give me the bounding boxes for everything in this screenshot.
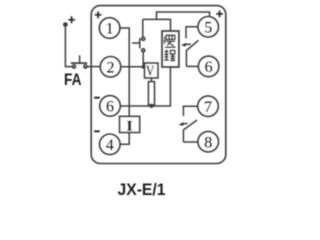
wire terminal1 to I element [120, 28, 129, 116]
terminal 5 [198, 17, 219, 38]
minus terminal 4 [94, 130, 100, 132]
plus FA [68, 16, 75, 23]
wire resistor to node [150, 104, 152, 107]
wire FA to terminal 2 [87, 66, 100, 68]
logic block character ji [164, 50, 175, 61]
junction dot resistor node [149, 104, 153, 108]
contact 5-6 arrow [184, 43, 191, 46]
svg-text:6: 6 [106, 99, 114, 116]
pushbutton FA plunger [71, 62, 87, 64]
junction dot button-V node [142, 65, 146, 69]
plus terminal 5 [216, 11, 223, 18]
terminal 2 [100, 57, 121, 78]
wire A to terminal 5 [157, 12, 210, 19]
wire button to V element [142, 52, 144, 67]
logic block box [162, 31, 179, 67]
contact 7-8 fixed stub [183, 106, 197, 116]
terminal 6 left [100, 96, 121, 117]
FA source dot [63, 22, 68, 27]
wire I to terminal 4 [120, 133, 129, 145]
svg-text:V: V [146, 64, 154, 80]
svg-text:JX-E/1: JX-E/1 [118, 181, 166, 199]
reset button contact dots [142, 37, 145, 40]
svg-text:8: 8 [204, 134, 212, 151]
contact 7-8 blade [183, 120, 197, 142]
svg-text:4: 4 [106, 137, 114, 154]
polarity marks [68, 11, 223, 132]
svg-text:5: 5 [204, 20, 212, 37]
V element box [145, 63, 159, 78]
logic block character luo [164, 35, 176, 47]
contact 5-6 wire to 6 [186, 65, 198, 67]
terminal 1 [99, 18, 120, 39]
minus terminal 6 [94, 97, 100, 99]
wire terminal2 to V element [121, 66, 145, 68]
contact 7-8 wire to 8 [183, 141, 198, 143]
contact 7-8 arrow [181, 122, 188, 125]
svg-text:2: 2 [107, 60, 115, 77]
svg-text:6: 6 [205, 59, 213, 76]
contact 5-6 blade [186, 40, 198, 66]
wire terminal6 to logic bottom [120, 67, 170, 106]
relay outline box [91, 6, 226, 164]
svg-text:1: 1 [106, 21, 114, 38]
terminal 7 [198, 96, 219, 117]
wire button branch [142, 19, 144, 37]
terminal 6 right [198, 56, 219, 77]
pushbutton FA contact dots [73, 65, 76, 68]
wire V to resistor [150, 78, 152, 82]
svg-text:I: I [127, 119, 133, 135]
I element box [120, 116, 140, 132]
svg-text:FA: FA [64, 71, 82, 89]
svg-text:7: 7 [204, 99, 212, 116]
wire B logic top branch [143, 19, 171, 31]
terminal 8 [198, 131, 219, 152]
terminal 4 [100, 134, 121, 155]
resistor element [148, 82, 154, 105]
wire FA positive lead [65, 27, 72, 67]
plus terminal 1 [95, 11, 102, 18]
reset button plunger [139, 38, 141, 48]
terminal labels [106, 20, 213, 155]
contact 5-6 fixed stub [186, 27, 198, 39]
